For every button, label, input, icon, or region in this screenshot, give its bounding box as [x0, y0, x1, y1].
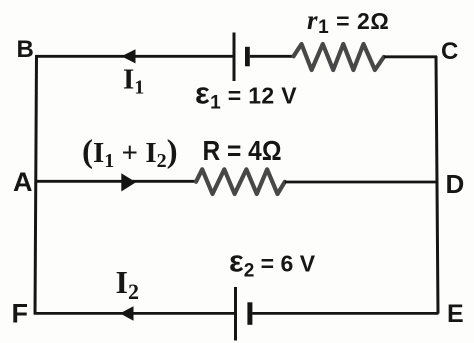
svg-text:B: B [17, 36, 34, 63]
wire resistor r1 to C [384, 55, 437, 58]
svg-text:ε2 = 6 V: ε2 = 6 V [229, 244, 316, 282]
wire resistor R to D [285, 181, 438, 184]
wire B to battery E1 [36, 55, 234, 58]
svg-text:F: F [12, 299, 29, 329]
battery E1 short plate [245, 47, 250, 67]
svg-text:I1: I1 [123, 64, 144, 99]
svg-text:A: A [13, 167, 33, 197]
resistor r1 [294, 44, 384, 70]
battery E2 long plate [234, 287, 237, 341]
resistor R [196, 169, 285, 194]
svg-text:E: E [447, 300, 464, 328]
wire battery E1 to resistor r1 [250, 55, 295, 58]
wire A to resistor R [35, 180, 197, 183]
wire F to battery E2 [34, 312, 234, 315]
battery E2 short plate [247, 302, 252, 325]
svg-text:D: D [446, 169, 465, 199]
arrow I2 current direction pointing left [120, 306, 134, 321]
battery E1 long plate [233, 33, 236, 82]
wire left side B-A-F [35, 55, 37, 315]
svg-text:I2: I2 [116, 264, 139, 304]
wire battery E2 to E [252, 312, 438, 315]
svg-text:r1 = 2Ω: r1 = 2Ω [307, 5, 389, 38]
svg-text:C: C [441, 38, 458, 65]
arrow (I1+I2) current direction pointing right [121, 173, 136, 191]
svg-text:(I1 + I2): (I1 + I2) [82, 134, 178, 172]
arrow I1 current direction pointing left [122, 49, 136, 63]
wire right side C-D-E [436, 56, 438, 314]
svg-text:ε1 = 12 V: ε1 = 12 V [195, 76, 297, 114]
svg-text:R = 4Ω: R = 4Ω [203, 135, 282, 166]
